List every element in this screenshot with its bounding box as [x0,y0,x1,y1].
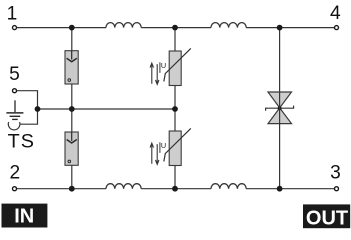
junction node C' (bottom) [277,186,283,192]
voltage bar R2 [159,142,161,153]
surge arrester F1 (gas discharge tube with fail-safe, upper) [65,51,78,84]
terminal 2 circle [13,187,17,191]
svg-text:OUT: OUT [306,207,348,229]
terminal 3 circle [335,187,339,191]
node diode center [278,106,282,110]
wire bottom line left segment (terminal 2 to node A') [15,188,107,190]
TS disconnect contact arc [8,122,20,130]
inductor L3 (bottom left coil) [106,184,141,189]
varistor diagonal stroke R2 [164,128,191,161]
svg-text:3: 3 [330,163,341,184]
zener bar D1 [266,106,294,111]
suppressor diode D1 (bidirectional TVS) [266,92,294,124]
svg-text:U: U [161,141,166,150]
wire top line middle segment (node B area) [141,27,211,29]
wire column B upper (node B to varistor R1) [174,28,176,51]
junction node B (earth rail) [172,106,178,112]
inductor L2 (top right coil) [211,23,246,28]
diode triangle upper D1 [268,92,292,108]
diode triangle lower D1 [268,108,292,124]
varistor R1 (upper) [150,48,191,85]
svg-text:TS: TS [8,130,35,152]
terminal 5 circle [13,89,17,93]
fail-safe arrow head F2 [67,140,77,144]
wire bottom line middle segment [141,188,211,190]
junction node C (top) [277,25,283,31]
wire column A upper (node A to arrester F1) [71,28,73,51]
wire column B middle (R1 to earth rail to R2) [174,86,176,132]
wire terminal 5 branch [15,91,38,125]
voltage arrow up R2 [150,143,153,164]
fail-safe arrow stem F1 [71,51,73,60]
wire column B lower (R2 to bottom line) [174,166,176,189]
wire column A middle (F1 to earth rail to F2) [71,84,73,132]
svg-text:5: 5 [9,64,20,85]
junction node TS (earth rail left) [35,106,41,112]
varistor R2 (lower) [150,128,191,165]
svg-text:U: U [161,61,166,70]
junction node A' (bottom) [69,186,75,192]
svg-text:1: 1 [7,4,18,25]
wire column C (node C through diode to node C') [279,28,281,189]
wire top line left segment (terminal 1 to node A) [15,27,107,29]
junction node B (top) [172,25,178,31]
svg-text:IN: IN [14,206,34,228]
varistor diagonal stroke R1 [164,48,191,81]
IN badge [2,204,48,228]
fail-safe arrow stem F2 [71,132,73,141]
indicator circle F1 [68,79,71,82]
inductor L1 (top left coil) [106,23,141,28]
wire column A lower (F2 to bottom line) [71,165,73,188]
fail-safe arrow head F1 [67,58,77,62]
inductor L4 (bottom right coil) [211,184,246,189]
voltage arrow down R2 [156,144,159,164]
OUT badge [303,204,350,229]
junction node A (earth rail) [69,106,75,112]
surge arrester F2 (gas discharge tube with fail-safe, lower) [65,132,78,165]
svg-text:4: 4 [330,3,341,24]
voltage arrow up R1 [150,63,153,84]
ground symbol [6,100,23,119]
junction node A (top) [69,25,75,31]
wire bottom line right segment (node C' to terminal 3) [246,188,336,190]
junction node B' (bottom) [172,186,178,192]
svg-text:2: 2 [9,163,20,184]
voltage bar R1 [159,62,161,73]
indicator circle F2 [68,160,71,163]
voltage arrow down R1 [156,64,159,84]
wire top line right segment (node C to terminal 4) [246,27,336,29]
wire middle line (earth rail) [38,108,176,110]
terminal 4 circle [335,26,339,30]
terminal 1 circle [13,26,17,30]
